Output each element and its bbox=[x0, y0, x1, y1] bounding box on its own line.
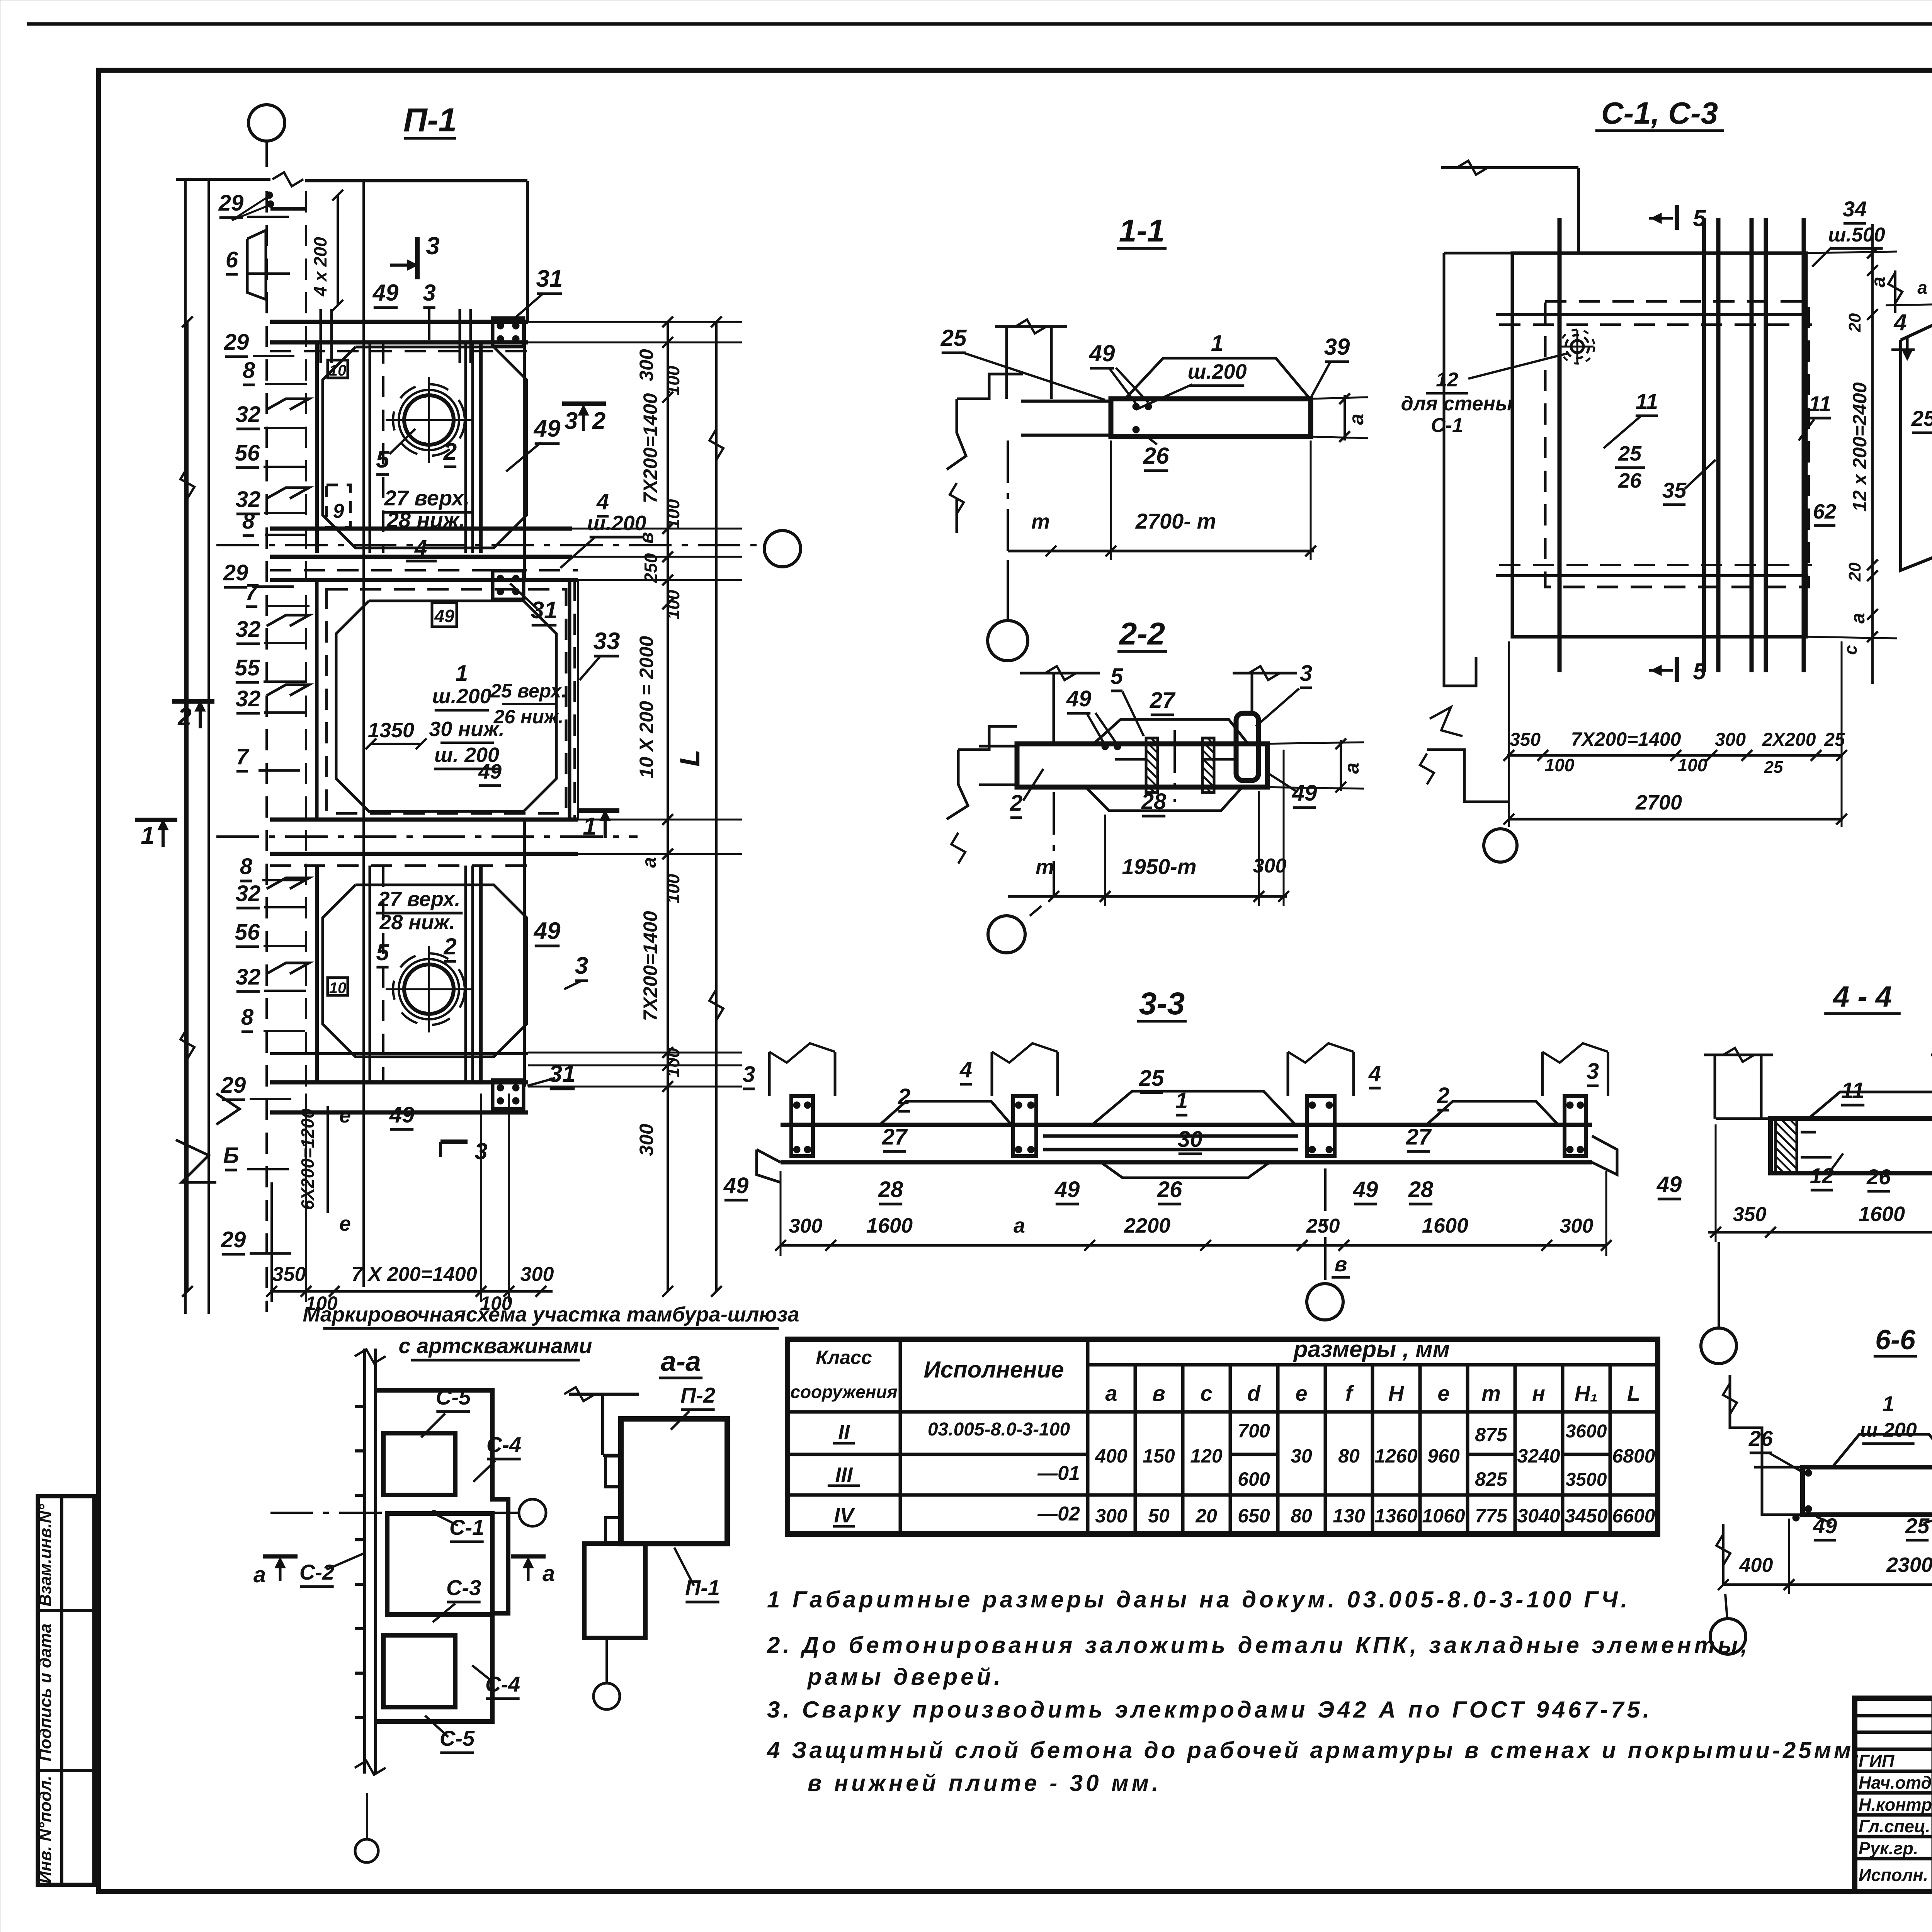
svg-text:II: II bbox=[838, 1421, 850, 1444]
svg-text:960: 960 bbox=[1427, 1445, 1460, 1467]
svg-text:49: 49 bbox=[372, 280, 399, 306]
svg-text:49: 49 bbox=[533, 918, 561, 944]
svg-text:62: 62 bbox=[1813, 500, 1836, 523]
svg-text:4: 4 bbox=[1368, 1061, 1381, 1086]
svg-text:39: 39 bbox=[1324, 334, 1350, 360]
svg-text:400: 400 bbox=[1095, 1445, 1128, 1467]
svg-text:L: L bbox=[675, 750, 706, 767]
svg-text:34: 34 bbox=[1843, 197, 1867, 221]
svg-text:12: 12 bbox=[1810, 1163, 1834, 1188]
svg-text:250: 250 bbox=[1306, 1215, 1340, 1237]
svg-text:2: 2 bbox=[592, 408, 605, 434]
svg-text:130: 130 bbox=[1333, 1505, 1365, 1527]
svg-text:2700: 2700 bbox=[1635, 791, 1682, 814]
svg-text:32: 32 bbox=[236, 617, 261, 642]
svg-text:С-5: С-5 bbox=[436, 1385, 471, 1409]
svg-text:28: 28 bbox=[1408, 1177, 1434, 1202]
svg-text:49: 49 bbox=[1054, 1177, 1080, 1202]
svg-text:2: 2 bbox=[1010, 791, 1022, 816]
svg-text:—01: —01 bbox=[1037, 1462, 1080, 1485]
svg-text:d: d bbox=[1247, 1381, 1261, 1405]
svg-text:650: 650 bbox=[1238, 1505, 1270, 1527]
svg-text:3040: 3040 bbox=[1517, 1505, 1560, 1527]
svg-text:300: 300 bbox=[1095, 1505, 1128, 1527]
svg-text:11: 11 bbox=[1809, 391, 1831, 416]
svg-text:350: 350 bbox=[1733, 1203, 1767, 1226]
svg-text:29: 29 bbox=[221, 1227, 246, 1252]
svg-text:е: е bbox=[1437, 1381, 1449, 1405]
svg-text:26: 26 bbox=[1618, 469, 1642, 492]
svg-text:С-5: С-5 bbox=[440, 1726, 475, 1750]
svg-text:а: а bbox=[638, 857, 660, 868]
svg-text:Гл.спец.: Гл.спец. bbox=[1859, 1816, 1930, 1836]
svg-text:Исполнение: Исполнение bbox=[923, 1357, 1064, 1383]
svg-text:5: 5 bbox=[376, 939, 389, 965]
svg-text:а: а bbox=[1867, 277, 1889, 287]
svg-text:4 - 4: 4 - 4 bbox=[1832, 980, 1892, 1013]
svg-text:IV: IV bbox=[834, 1504, 855, 1527]
svg-text:775: 775 bbox=[1475, 1505, 1508, 1527]
svg-text:1600: 1600 bbox=[866, 1214, 913, 1237]
svg-text:4: 4 bbox=[959, 1057, 972, 1082]
svg-text:Рук.гр.: Рук.гр. bbox=[1859, 1838, 1918, 1858]
svg-text:9: 9 bbox=[333, 500, 344, 522]
svg-text:7Х200=1400: 7Х200=1400 bbox=[639, 393, 661, 503]
svg-text:а-а: а-а bbox=[661, 1346, 701, 1377]
svg-text:27: 27 bbox=[1406, 1124, 1432, 1150]
svg-text:Исполн.: Исполн. bbox=[1859, 1865, 1928, 1885]
svg-text:3: 3 bbox=[743, 1062, 755, 1087]
svg-text:для стены: для стены bbox=[1401, 393, 1513, 415]
svg-text:3: 3 bbox=[423, 280, 435, 306]
svg-text:а: а bbox=[1847, 613, 1869, 624]
svg-text:1-1: 1-1 bbox=[1119, 213, 1165, 248]
svg-text:250: 250 bbox=[641, 553, 661, 583]
svg-text:1: 1 bbox=[1882, 1391, 1894, 1416]
svg-text:1: 1 bbox=[1211, 331, 1223, 356]
svg-text:49: 49 bbox=[389, 1102, 415, 1128]
svg-text:ГИП: ГИП bbox=[1859, 1751, 1895, 1771]
svg-text:1: 1 bbox=[456, 661, 468, 686]
svg-text:с артскважинами: с артскважинами bbox=[399, 1333, 592, 1358]
svg-text:20: 20 bbox=[1845, 313, 1864, 332]
svg-text:2: 2 bbox=[443, 439, 457, 465]
svg-text:700: 700 bbox=[1238, 1420, 1270, 1442]
svg-text:4: 4 bbox=[414, 536, 427, 561]
svg-text:С-1: С-1 bbox=[449, 1515, 484, 1539]
svg-text:55: 55 bbox=[235, 655, 260, 680]
svg-text:300: 300 bbox=[789, 1215, 823, 1237]
svg-text:28 ниж.: 28 ниж. bbox=[379, 911, 455, 934]
svg-text:400: 400 bbox=[1739, 1554, 1773, 1577]
svg-text:100: 100 bbox=[1678, 755, 1708, 775]
svg-text:49: 49 bbox=[1353, 1177, 1378, 1202]
svg-text:Б: Б bbox=[223, 1143, 239, 1168]
svg-text:27 верх.: 27 верх. bbox=[378, 888, 460, 911]
svg-text:m: m bbox=[1036, 855, 1054, 879]
svg-text:49: 49 bbox=[1656, 1172, 1682, 1197]
svg-text:П-2: П-2 bbox=[680, 1383, 715, 1407]
svg-text:2: 2 bbox=[1437, 1083, 1449, 1108]
svg-text:С-1: С-1 bbox=[1431, 414, 1463, 437]
svg-text:100: 100 bbox=[663, 590, 683, 619]
svg-text:ш.200: ш.200 bbox=[432, 685, 491, 708]
svg-text:Инв. N°подл.: Инв. N°подл. bbox=[36, 1776, 55, 1883]
svg-text:29: 29 bbox=[223, 560, 248, 585]
svg-text:6Х200=1200: 6Х200=1200 bbox=[298, 1108, 318, 1210]
svg-text:а: а bbox=[543, 1561, 555, 1586]
svg-text:300: 300 bbox=[1560, 1215, 1594, 1237]
svg-text:50: 50 bbox=[1148, 1505, 1170, 1527]
svg-text:Н₁: Н₁ bbox=[1575, 1381, 1598, 1405]
svg-text:20: 20 bbox=[1845, 562, 1864, 582]
svg-text:8: 8 bbox=[240, 854, 253, 879]
svg-text:29: 29 bbox=[221, 1073, 246, 1098]
svg-text:150: 150 bbox=[1143, 1445, 1175, 1467]
svg-text:1360: 1360 bbox=[1374, 1505, 1417, 1527]
svg-text:сооружения: сооружения bbox=[790, 1382, 897, 1402]
svg-text:С-4: С-4 bbox=[485, 1672, 520, 1696]
svg-text:3500: 3500 bbox=[1566, 1469, 1607, 1490]
svg-text:875: 875 bbox=[1475, 1424, 1508, 1446]
svg-text:6600: 6600 bbox=[1612, 1505, 1655, 1527]
svg-text:29: 29 bbox=[218, 190, 244, 216]
svg-text:1: 1 bbox=[1175, 1088, 1188, 1113]
svg-text:а: а bbox=[1345, 414, 1368, 425]
svg-text:49: 49 bbox=[533, 415, 561, 442]
svg-text:2700- m: 2700- m bbox=[1135, 509, 1216, 533]
svg-text:е: е bbox=[339, 1212, 351, 1235]
svg-text:300: 300 bbox=[636, 349, 657, 381]
svg-text:28: 28 bbox=[1141, 789, 1167, 814]
svg-text:100: 100 bbox=[663, 1048, 683, 1077]
svg-text:8: 8 bbox=[242, 509, 255, 534]
svg-text:80: 80 bbox=[1338, 1445, 1360, 1467]
svg-text:m: m bbox=[1031, 510, 1050, 533]
svg-text:в: в bbox=[1152, 1381, 1165, 1405]
svg-text:3: 3 bbox=[1300, 661, 1312, 686]
svg-text:2-2: 2-2 bbox=[1119, 616, 1165, 651]
svg-text:27: 27 bbox=[882, 1124, 908, 1150]
svg-text:С-1, С-3: С-1, С-3 bbox=[1601, 96, 1718, 130]
svg-text:2: 2 bbox=[898, 1084, 910, 1109]
svg-text:26: 26 bbox=[1157, 1177, 1182, 1202]
svg-text:Класс: Класс bbox=[816, 1347, 872, 1368]
svg-text:ш 200: ш 200 bbox=[1860, 1419, 1917, 1441]
svg-text:Нач.отд.: Нач.отд. bbox=[1859, 1773, 1932, 1793]
svg-text:26: 26 bbox=[1866, 1165, 1891, 1189]
svg-text:350: 350 bbox=[272, 1263, 306, 1286]
svg-text:10 Х 200 = 2000: 10 Х 200 = 2000 bbox=[636, 636, 657, 779]
svg-text:49: 49 bbox=[434, 606, 454, 626]
svg-text:25: 25 bbox=[1139, 1066, 1164, 1091]
svg-text:25: 25 bbox=[1911, 406, 1932, 430]
svg-text:32: 32 bbox=[236, 881, 261, 906]
svg-text:1260: 1260 bbox=[1374, 1445, 1417, 1467]
svg-text:3: 3 bbox=[575, 952, 588, 979]
svg-text:2300: 2300 bbox=[1886, 1553, 1932, 1577]
svg-text:1060: 1060 bbox=[1422, 1505, 1465, 1527]
svg-text:н: н bbox=[1532, 1381, 1545, 1405]
svg-text:4: 4 bbox=[1893, 310, 1906, 335]
svg-text:3. Сварку производить элек: 3. Сварку производить электродами Э42 А … bbox=[767, 1697, 1652, 1723]
svg-text:2: 2 bbox=[177, 703, 192, 731]
svg-text:а: а bbox=[1917, 277, 1927, 298]
svg-text:7Х200=1400: 7Х200=1400 bbox=[639, 911, 661, 1021]
svg-text:120: 120 bbox=[1190, 1445, 1223, 1467]
svg-text:7: 7 bbox=[245, 580, 259, 605]
svg-text:в нижней плите - 30 мм.: в нижней плите - 30 мм. bbox=[808, 1770, 1162, 1796]
svg-text:35: 35 bbox=[1662, 478, 1687, 502]
svg-text:5: 5 bbox=[1111, 664, 1123, 689]
svg-text:в: в bbox=[636, 532, 657, 544]
svg-text:2200: 2200 bbox=[1124, 1214, 1170, 1237]
svg-text:е: е bbox=[1295, 1381, 1307, 1405]
svg-text:m: m bbox=[1481, 1381, 1501, 1405]
svg-text:1600: 1600 bbox=[1859, 1202, 1905, 1226]
svg-text:П-1: П-1 bbox=[403, 102, 457, 139]
svg-text:27: 27 bbox=[1150, 688, 1176, 713]
svg-text:25: 25 bbox=[1618, 442, 1642, 465]
svg-text:12 х 200=2400: 12 х 200=2400 bbox=[1849, 382, 1871, 512]
svg-text:е: е bbox=[339, 1104, 351, 1127]
svg-text:6-6: 6-6 bbox=[1875, 1325, 1916, 1355]
svg-text:—02: —02 bbox=[1037, 1503, 1080, 1525]
svg-text:49: 49 bbox=[1089, 340, 1115, 366]
svg-text:1 Габаритные размеры даны: 1 Габаритные размеры даны на докум. 03.0… bbox=[767, 1587, 1630, 1612]
svg-text:30: 30 bbox=[1291, 1445, 1312, 1467]
svg-text:ш.500: ш.500 bbox=[1828, 224, 1885, 246]
svg-text:825: 825 bbox=[1475, 1468, 1508, 1490]
svg-text:26: 26 bbox=[1143, 443, 1169, 469]
svg-text:300: 300 bbox=[636, 1124, 657, 1156]
svg-text:3600: 3600 bbox=[1566, 1421, 1607, 1442]
svg-text:4 Защитный слой бетона до: 4 Защитный слой бетона до рабочей армату… bbox=[767, 1737, 1863, 1763]
svg-text:600: 600 bbox=[1238, 1468, 1270, 1490]
svg-text:1: 1 bbox=[141, 821, 155, 849]
svg-text:100: 100 bbox=[663, 874, 683, 903]
svg-text:4: 4 bbox=[596, 489, 609, 514]
svg-text:11: 11 bbox=[1841, 1078, 1864, 1103]
svg-text:100: 100 bbox=[305, 1293, 338, 1314]
svg-text:32: 32 bbox=[236, 402, 261, 427]
svg-text:в: в bbox=[1335, 1253, 1347, 1276]
svg-text:6: 6 bbox=[226, 247, 238, 272]
svg-text:100: 100 bbox=[480, 1293, 512, 1314]
svg-text:49: 49 bbox=[478, 760, 502, 783]
svg-text:3240: 3240 bbox=[1517, 1445, 1560, 1467]
svg-text:4 х 200: 4 х 200 bbox=[310, 237, 330, 297]
svg-text:1950-m: 1950-m bbox=[1122, 854, 1196, 879]
svg-text:ш.200: ш.200 bbox=[1187, 360, 1247, 383]
svg-text:30: 30 bbox=[1178, 1127, 1203, 1152]
svg-text:7: 7 bbox=[236, 744, 250, 769]
svg-text:32: 32 bbox=[236, 964, 261, 990]
svg-text:8: 8 bbox=[243, 358, 255, 383]
svg-text:26: 26 bbox=[1748, 1426, 1773, 1451]
svg-text:с: с bbox=[1840, 645, 1861, 655]
svg-text:а: а bbox=[1341, 763, 1363, 774]
svg-text:11: 11 bbox=[1636, 389, 1658, 413]
svg-text:80: 80 bbox=[1291, 1505, 1312, 1527]
svg-text:а: а bbox=[253, 1562, 266, 1587]
svg-text:10: 10 bbox=[329, 980, 347, 997]
svg-text:56: 56 bbox=[235, 920, 260, 945]
svg-text:25 верх.: 25 верх. bbox=[490, 680, 566, 702]
svg-text:49: 49 bbox=[723, 1173, 749, 1198]
svg-text:10: 10 bbox=[329, 362, 347, 379]
svg-text:3-3: 3-3 bbox=[1139, 986, 1185, 1021]
svg-text:350: 350 bbox=[1510, 730, 1541, 750]
svg-text:6800: 6800 bbox=[1612, 1445, 1655, 1467]
svg-text:3: 3 bbox=[565, 408, 578, 434]
svg-text:12: 12 bbox=[1436, 369, 1458, 391]
svg-text:5: 5 bbox=[376, 446, 390, 473]
svg-text:2Х200: 2Х200 bbox=[1762, 730, 1816, 750]
svg-text:25: 25 bbox=[1905, 1514, 1930, 1538]
svg-text:100: 100 bbox=[663, 499, 683, 529]
svg-text:7 Х 200=1400: 7 Х 200=1400 bbox=[351, 1263, 477, 1286]
svg-text:5: 5 bbox=[1693, 205, 1706, 231]
svg-text:8: 8 bbox=[241, 1005, 254, 1030]
svg-text:03.005-8.0-3-100: 03.005-8.0-3-100 bbox=[928, 1419, 1070, 1440]
svg-text:С-4: С-4 bbox=[486, 1432, 521, 1457]
svg-text:а: а bbox=[1014, 1214, 1025, 1237]
svg-text:ш.200: ш.200 bbox=[587, 512, 646, 535]
svg-text:2. До бетонирования заложи: 2. До бетонирования заложить детали КПК,… bbox=[767, 1632, 1750, 1658]
svg-text:20: 20 bbox=[1195, 1505, 1217, 1527]
svg-text:Н: Н bbox=[1388, 1381, 1405, 1405]
svg-text:III: III bbox=[835, 1463, 853, 1486]
svg-text:Подпись и дата: Подпись и дата bbox=[36, 1624, 55, 1762]
svg-text:Взам.инв.N°: Взам.инв.N° bbox=[36, 1504, 55, 1607]
svg-text:25: 25 bbox=[940, 325, 967, 351]
svg-text:3450: 3450 bbox=[1565, 1505, 1607, 1527]
svg-text:100: 100 bbox=[663, 366, 683, 395]
svg-text:3: 3 bbox=[426, 232, 440, 260]
svg-text:1600: 1600 bbox=[1422, 1214, 1468, 1237]
svg-text:рамы дверей.: рамы дверей. bbox=[807, 1664, 1003, 1690]
svg-text:31: 31 bbox=[536, 265, 563, 292]
svg-text:300: 300 bbox=[1715, 730, 1746, 750]
svg-text:L: L bbox=[1627, 1381, 1640, 1405]
svg-text:29: 29 bbox=[224, 330, 249, 355]
svg-text:33: 33 bbox=[594, 628, 620, 655]
svg-text:32: 32 bbox=[236, 686, 261, 711]
svg-text:2: 2 bbox=[443, 934, 456, 959]
svg-text:100: 100 bbox=[1545, 755, 1575, 775]
svg-text:Маркировочнаясхема участка т: Маркировочнаясхема участка тамбура-шлюза bbox=[303, 1303, 799, 1326]
svg-text:С-3: С-3 bbox=[446, 1575, 481, 1600]
svg-text:300: 300 bbox=[520, 1263, 554, 1286]
svg-text:27 верх.: 27 верх. bbox=[384, 486, 470, 510]
svg-text:25: 25 bbox=[1764, 758, 1783, 777]
svg-text:а: а bbox=[1105, 1381, 1117, 1405]
svg-text:56: 56 bbox=[235, 440, 260, 466]
svg-text:3: 3 bbox=[1587, 1059, 1599, 1084]
svg-text:С-2: С-2 bbox=[299, 1560, 334, 1584]
svg-text:49: 49 bbox=[1066, 686, 1092, 711]
svg-text:Н.контр.: Н.контр. bbox=[1859, 1795, 1932, 1815]
svg-text:30 ниж.: 30 ниж. bbox=[429, 718, 504, 741]
svg-text:28: 28 bbox=[878, 1177, 903, 1202]
svg-text:5: 5 bbox=[1693, 658, 1706, 684]
svg-text:49: 49 bbox=[1292, 781, 1317, 806]
svg-text:размеры , мм: размеры , мм bbox=[1293, 1336, 1450, 1362]
svg-text:с: с bbox=[1200, 1381, 1212, 1405]
svg-text:7Х200=1400: 7Х200=1400 bbox=[1571, 728, 1681, 750]
